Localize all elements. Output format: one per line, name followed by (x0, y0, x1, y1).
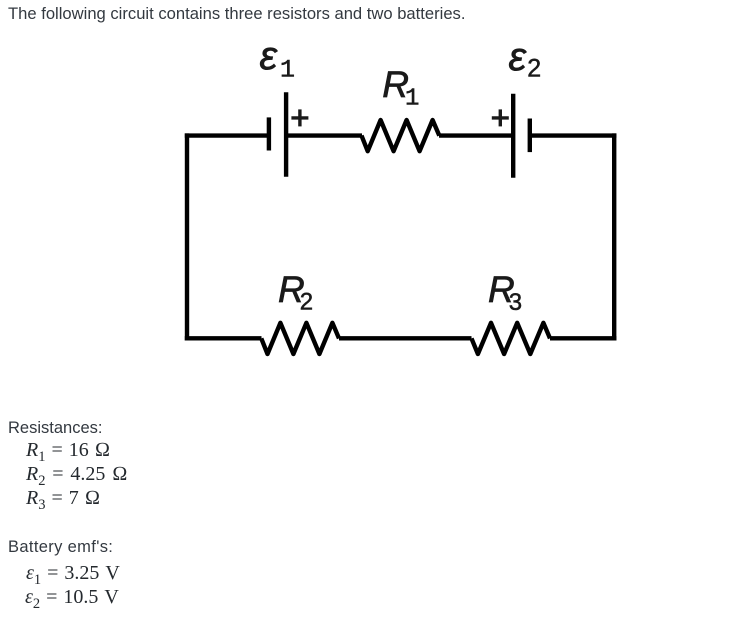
svg-text:2: 2 (300, 289, 313, 316)
wire E1 to R1 (286, 133, 362, 137)
R2 value (26, 463, 128, 490)
wire top-left segment (185, 133, 269, 137)
R1 value (26, 439, 110, 466)
wire bottom-left segment (185, 336, 262, 340)
problem statement (8, 4, 465, 24)
emf2 value (25, 586, 119, 613)
svg-text:3: 3 (509, 289, 522, 316)
battery E2 negative short plate (528, 119, 532, 153)
battery E1 negative short plate (267, 117, 271, 150)
resistor R3 zigzag (472, 323, 551, 354)
battery emf heading (8, 538, 113, 557)
resistances heading (8, 419, 102, 438)
label R3 (488, 269, 522, 316)
svg-text:1: 1 (405, 86, 419, 113)
svg-text:ε: ε (260, 34, 279, 78)
svg-text:2: 2 (527, 55, 541, 83)
label R2 (278, 269, 313, 316)
battery E1 plus sign (291, 109, 308, 126)
wire left vertical (185, 133, 189, 340)
R3 value (26, 487, 100, 514)
label R1 (382, 64, 419, 113)
svg-text:ε: ε (509, 35, 528, 79)
label epsilon2 (509, 35, 542, 83)
wire R1 to E2 (439, 133, 513, 137)
emf1 value (26, 562, 120, 589)
wire bottom-right segment (550, 336, 616, 340)
resistor R1 zigzag (362, 120, 440, 151)
battery E2 plus sign (492, 109, 509, 126)
svg-text:1: 1 (280, 56, 295, 85)
resistor R2 zigzag (261, 323, 339, 354)
label epsilon1 (260, 34, 296, 85)
battery E1 positive long plate (284, 92, 288, 177)
wire right vertical (612, 133, 616, 340)
wire E2 to top-right corner (530, 133, 617, 137)
battery E2 positive long plate (511, 94, 515, 178)
wire R2 to R3 (339, 336, 472, 340)
